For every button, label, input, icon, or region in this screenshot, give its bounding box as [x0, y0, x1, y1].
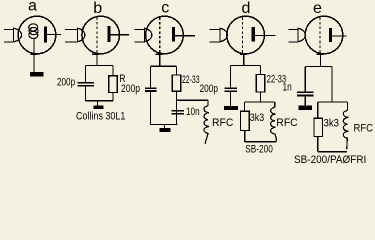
svg-text:3k3: 3k3 [250, 112, 264, 124]
svg-text:b: b [93, 0, 102, 17]
svg-text:RFC: RFC [276, 117, 297, 129]
svg-text:SB-200/PAØFRI: SB-200/PAØFRI [294, 154, 366, 166]
svg-text:10n: 10n [186, 106, 200, 118]
svg-text:Collins 30L1: Collins 30L1 [76, 111, 125, 123]
svg-text:3k3: 3k3 [324, 117, 340, 129]
svg-text:22-33: 22-33 [182, 74, 200, 86]
svg-text:d: d [242, 0, 251, 17]
svg-text:e: e [313, 0, 322, 17]
svg-text:1n: 1n [283, 82, 292, 94]
svg-text:SB-200: SB-200 [245, 144, 272, 156]
svg-text:a: a [28, 0, 37, 14]
svg-text:200p: 200p [200, 83, 219, 95]
svg-text:200p: 200p [57, 77, 75, 89]
svg-text:RFC: RFC [354, 122, 374, 134]
svg-text:200p: 200p [121, 83, 140, 95]
svg-text:c: c [161, 0, 169, 16]
svg-text:RFC: RFC [212, 117, 233, 129]
